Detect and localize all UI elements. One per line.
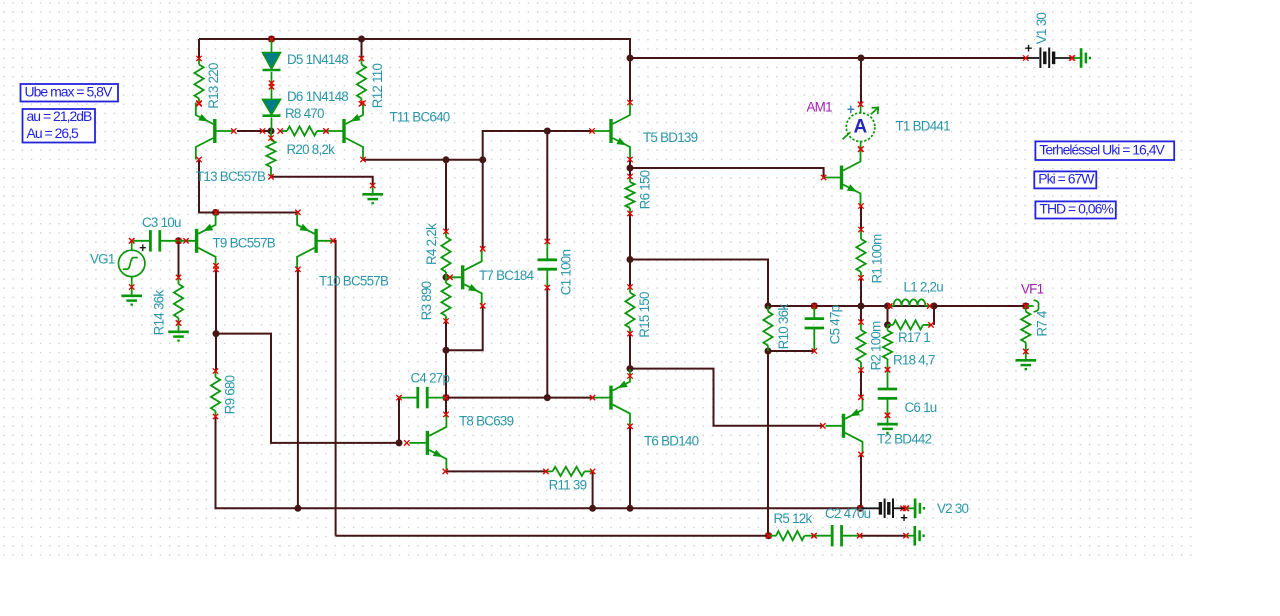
measurement box au = 21,2dB xyxy=(23,108,96,142)
measurement box THD = 0,06% xyxy=(1035,201,1115,219)
svg-text:C3 10u: C3 10u xyxy=(142,215,181,230)
svg-text:R6 150: R6 150 xyxy=(637,170,652,209)
junction xyxy=(212,209,219,216)
wire xyxy=(446,306,483,350)
svg-text:Au = 26,5: Au = 26,5 xyxy=(27,125,80,141)
pin marks xyxy=(260,128,265,133)
svg-text:+: + xyxy=(900,510,908,525)
svg-text:R12 110: R12 110 xyxy=(370,64,385,109)
ground xyxy=(906,526,924,546)
wire xyxy=(860,206,862,230)
junction xyxy=(544,394,551,401)
junction xyxy=(931,303,938,310)
junction xyxy=(1022,303,1029,310)
svg-text:T7 BC184: T7 BC184 xyxy=(479,268,535,283)
svg-text:T6 BD140: T6 BD140 xyxy=(644,433,699,448)
wire xyxy=(216,212,298,214)
wire xyxy=(237,130,271,132)
resistor R4 2,2k xyxy=(441,231,450,277)
transistor T5 BD139 xyxy=(593,103,630,160)
wire xyxy=(178,241,180,278)
wire xyxy=(446,397,593,399)
resistor R5 12k xyxy=(769,531,815,540)
svg-text:T11 BC640: T11 BC640 xyxy=(390,110,450,125)
transistor T9 BC557B xyxy=(179,212,216,269)
junction xyxy=(884,303,891,310)
svg-text:R11 39: R11 39 xyxy=(549,477,587,492)
voltage pin VF1 xyxy=(1026,300,1039,312)
wire xyxy=(629,213,631,259)
wire xyxy=(629,160,631,169)
svg-text:R10 36k: R10 36k xyxy=(776,304,791,350)
junction xyxy=(479,156,486,163)
junction xyxy=(627,505,634,512)
junction xyxy=(811,303,818,310)
resistor R14 36k xyxy=(174,277,183,323)
wire xyxy=(271,117,273,131)
svg-text:A: A xyxy=(854,117,868,138)
svg-text:+: + xyxy=(847,102,855,117)
resistor R18 4,7 xyxy=(883,325,892,370)
wire xyxy=(860,454,862,508)
wire xyxy=(630,57,1026,59)
wire xyxy=(629,58,631,103)
svg-text:T8 BC639: T8 BC639 xyxy=(459,414,514,429)
wire xyxy=(215,334,217,371)
svg-text:R13 220: R13 220 xyxy=(206,63,221,109)
svg-text:R8 470: R8 470 xyxy=(285,106,324,121)
svg-text:D6 1N4148: D6 1N4148 xyxy=(287,89,348,104)
transistor T7 BC184 xyxy=(445,249,482,306)
transistor T6 BD140 xyxy=(593,369,630,426)
junction xyxy=(443,347,450,354)
junction xyxy=(765,303,772,310)
svg-text:VG1: VG1 xyxy=(90,252,115,267)
svg-text:Terheléssel Uki = 16,4V: Terheléssel Uki = 16,4V xyxy=(1039,141,1165,157)
svg-text:VF1: VF1 xyxy=(1021,282,1044,297)
svg-text:T5 BD139: T5 BD139 xyxy=(643,130,698,145)
wire xyxy=(860,278,862,306)
transistor T1 BD441 xyxy=(824,149,861,206)
wire xyxy=(860,58,862,104)
svg-text:THD = 0,06%: THD = 0,06% xyxy=(1039,201,1113,217)
ground xyxy=(362,186,383,204)
svg-text:C1 100n: C1 100n xyxy=(558,250,573,296)
wire xyxy=(860,535,906,537)
capacitor C5 47p xyxy=(805,306,824,351)
svg-text:T1 BD441: T1 BD441 xyxy=(896,119,951,134)
pin marks xyxy=(196,100,201,105)
wire xyxy=(445,321,447,350)
resistor R17 1 xyxy=(888,320,932,329)
svg-text:R14 36k: R14 36k xyxy=(151,290,166,336)
measurement box Pki = 67W xyxy=(1034,171,1096,189)
svg-text:T10 BC557B: T10 BC557B xyxy=(319,274,389,289)
svg-text:C2 470u: C2 470u xyxy=(825,506,871,521)
wire xyxy=(546,131,548,241)
wire xyxy=(483,131,592,160)
resistor R6 150 xyxy=(625,177,634,214)
wire xyxy=(198,39,200,59)
svg-text:R2 100m: R2 100m xyxy=(868,321,883,371)
junction xyxy=(589,505,596,512)
battery V1 xyxy=(1025,40,1072,68)
wire xyxy=(629,168,631,177)
svg-text:V1 30: V1 30 xyxy=(1034,13,1049,45)
svg-text:C4 27p: C4 27p xyxy=(411,371,450,386)
svg-text:T2 BD442: T2 BD442 xyxy=(877,432,932,447)
wire xyxy=(363,159,483,161)
wire xyxy=(629,334,631,369)
junction xyxy=(175,237,182,244)
resistor R1 100m xyxy=(856,230,865,278)
capacitor C2 470u xyxy=(814,525,860,546)
wire xyxy=(482,160,484,249)
ground xyxy=(121,287,142,305)
svg-text:Pki = 67W: Pki = 67W xyxy=(1038,171,1095,187)
capacitor C1 100n xyxy=(538,241,557,287)
resistor R8 470 xyxy=(280,126,326,135)
transistor T11 BC640 xyxy=(326,103,363,160)
resistor R11 39 xyxy=(546,467,593,476)
wire xyxy=(398,398,400,443)
wire xyxy=(271,39,273,53)
junction xyxy=(765,348,772,355)
wire xyxy=(768,350,814,352)
svg-text:+: + xyxy=(1025,40,1033,55)
wire xyxy=(445,160,447,232)
wire xyxy=(546,288,548,398)
resistor R12 110 xyxy=(357,59,366,104)
svg-text:T9 BC557B: T9 BC557B xyxy=(213,236,276,251)
junction xyxy=(213,330,220,337)
transistor T8 BC639 xyxy=(409,414,446,471)
source VG1 xyxy=(119,241,145,287)
junction xyxy=(268,128,275,135)
resistor R3 890 xyxy=(441,277,450,321)
transistor T13 BC557B xyxy=(196,103,233,160)
diode D6 1N4148 xyxy=(263,99,281,115)
wire xyxy=(630,260,768,307)
resistor R13 220 xyxy=(194,59,203,104)
resistor R7 4 xyxy=(1021,306,1030,352)
svg-text:au = 21,2dB: au = 21,2dB xyxy=(27,108,93,124)
junction xyxy=(627,256,634,263)
measurement box Terheléssel Uki = 16,4V xyxy=(1035,141,1174,160)
junction xyxy=(884,321,891,328)
junction xyxy=(858,303,865,310)
wire xyxy=(199,160,216,213)
svg-text:C6 1u: C6 1u xyxy=(905,400,937,415)
capacitor C3 10u xyxy=(132,230,179,255)
junction xyxy=(443,156,450,163)
wire xyxy=(445,350,447,397)
ground xyxy=(1016,352,1037,370)
wire xyxy=(767,351,769,536)
diode D5 1N4148 xyxy=(263,53,281,71)
resistor R15 150 xyxy=(625,287,634,334)
resistor R2 100m xyxy=(856,322,865,370)
measurement box Ube max = 5,8V xyxy=(21,84,119,102)
wire xyxy=(297,269,299,508)
wire xyxy=(592,471,594,508)
svg-text:R15 150: R15 150 xyxy=(637,292,652,338)
svg-text:R17 1: R17 1 xyxy=(898,330,930,345)
ground xyxy=(1072,48,1090,68)
wire xyxy=(199,39,630,58)
resistor R10 36k xyxy=(763,306,772,351)
inductor L1 xyxy=(890,299,930,306)
junction xyxy=(627,365,634,372)
junction xyxy=(443,274,450,281)
wire xyxy=(887,306,889,325)
svg-text:R18 4,7: R18 4,7 xyxy=(893,353,935,368)
wire xyxy=(336,535,769,537)
wire xyxy=(271,177,373,186)
svg-text:D5 1N4148: D5 1N4148 xyxy=(287,52,348,67)
svg-text:V2 30: V2 30 xyxy=(937,501,969,516)
wire xyxy=(445,398,447,416)
svg-text:R20 8,2k: R20 8,2k xyxy=(287,142,336,157)
svg-text:R4 2,2k: R4 2,2k xyxy=(424,223,439,265)
wire xyxy=(629,426,631,508)
wire xyxy=(271,72,273,100)
svg-text:C5 47p: C5 47p xyxy=(827,305,842,344)
svg-text:R1 100m: R1 100m xyxy=(869,234,884,284)
wire xyxy=(768,305,1026,307)
svg-text:R5 12k: R5 12k xyxy=(774,511,813,526)
ammeter AM1 xyxy=(843,102,879,152)
junction xyxy=(268,36,275,43)
wire xyxy=(933,306,935,325)
junction xyxy=(627,55,634,62)
junction xyxy=(858,55,865,62)
capacitor C4 27p xyxy=(399,387,446,408)
ground xyxy=(906,499,924,519)
resistor R20 8,2k xyxy=(266,131,275,177)
transistor T10 BC557B xyxy=(297,212,334,269)
junction xyxy=(627,165,634,172)
battery V2 xyxy=(860,499,908,526)
junction xyxy=(358,36,365,43)
svg-text:R7 4: R7 4 xyxy=(1034,310,1049,337)
svg-text:Ube max = 5,8V: Ube max = 5,8V xyxy=(25,84,113,100)
resistor R9 680 xyxy=(211,371,220,417)
capacitor C6 1u xyxy=(878,370,897,416)
junction xyxy=(857,505,864,512)
junction xyxy=(544,128,551,135)
wire xyxy=(630,168,824,178)
transistor T2 BD442 xyxy=(826,397,863,454)
svg-text:L1 2,2u: L1 2,2u xyxy=(904,280,944,295)
wire xyxy=(445,470,546,472)
svg-text:R3 890: R3 890 xyxy=(419,281,434,320)
wire xyxy=(860,370,862,397)
wire xyxy=(216,417,861,509)
wire xyxy=(216,334,399,443)
ground xyxy=(877,415,898,433)
wire xyxy=(630,369,823,426)
ground xyxy=(168,323,189,341)
wire xyxy=(629,260,631,288)
junction xyxy=(396,439,403,446)
junction xyxy=(765,532,772,539)
wire xyxy=(215,269,217,333)
svg-text:AM1: AM1 xyxy=(807,100,833,115)
junction xyxy=(443,394,450,401)
svg-text:R9 680: R9 680 xyxy=(222,375,237,414)
junction xyxy=(294,505,301,512)
wire xyxy=(361,39,363,59)
wire xyxy=(333,241,336,536)
wire xyxy=(860,306,862,322)
svg-text:T13 BC557B: T13 BC557B xyxy=(196,169,266,184)
